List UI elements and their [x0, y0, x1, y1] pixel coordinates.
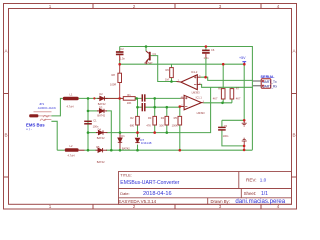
svg-text:EASYEDA V5.3.14: EASYEDA V5.3.14 [118, 199, 156, 204]
svg-text:B: B [292, 133, 295, 138]
svg-text:D1: D1 [121, 134, 125, 138]
svg-text:4,7uH: 4,7uH [67, 105, 74, 109]
svg-text:1: 1 [49, 4, 52, 9]
svg-text:IC1-2: IC1-2 [191, 70, 198, 74]
svg-text:100n: 100n [223, 134, 229, 138]
svg-text:47K: 47K [146, 124, 151, 128]
svg-text:10K: 10K [159, 124, 164, 128]
svg-text:BAT42: BAT42 [122, 147, 130, 151]
svg-text:D2: D2 [99, 92, 103, 96]
svg-text:UART_Rx: UART_Rx [262, 85, 277, 89]
svg-text:C1: C1 [93, 119, 97, 123]
svg-text:IC1.1: IC1.1 [196, 96, 203, 100]
svg-text:4K7: 4K7 [213, 96, 218, 100]
svg-text:BC547: BC547 [145, 61, 153, 65]
svg-text:Sheet:: Sheet: [244, 191, 257, 196]
svg-text:BAT42: BAT42 [97, 113, 105, 117]
svg-text:R5: R5 [174, 116, 178, 120]
svg-text:680: 680 [130, 124, 135, 128]
svg-text:1,5n: 1,5n [204, 56, 210, 60]
svg-text:R8: R8 [112, 73, 116, 77]
svg-text:C2: C2 [120, 47, 124, 51]
svg-text:+ / -: + / - [26, 127, 32, 131]
svg-text:100R: 100R [110, 83, 116, 87]
svg-text:C6: C6 [211, 48, 215, 52]
svg-text:R1: R1 [127, 93, 131, 97]
svg-text:Q1: Q1 [153, 52, 157, 56]
svg-text:BAT42: BAT42 [97, 136, 105, 140]
svg-text:R3: R3 [148, 116, 152, 120]
svg-text:R2: R2 [130, 116, 134, 120]
svg-text:SERIAL: SERIAL [261, 75, 276, 79]
svg-text:2: 2 [133, 4, 136, 9]
svg-text:+5V: +5V [239, 56, 246, 60]
svg-text:1N4148: 1N4148 [141, 141, 152, 145]
svg-text:Drawn By:: Drawn By: [211, 199, 230, 204]
svg-text:1,5n: 1,5n [120, 56, 126, 60]
svg-text:EMSBus-UART-Converter: EMSBus-UART-Converter [120, 180, 179, 186]
svg-text:10K: 10K [127, 101, 132, 105]
svg-text:R6: R6 [166, 68, 170, 72]
svg-text:100K: 100K [172, 124, 178, 128]
svg-text:LM393: LM393 [197, 111, 205, 115]
svg-text:Date:: Date: [120, 191, 129, 196]
svg-text:1/1: 1/1 [261, 191, 268, 197]
svg-text:dani.macias.perea: dani.macias.perea [235, 198, 285, 205]
svg-text:UART_Tx: UART_Tx [262, 80, 277, 84]
svg-text:2018-04-16: 2018-04-16 [143, 191, 172, 197]
svg-text:1M: 1M [165, 78, 169, 82]
svg-text:4: 4 [277, 4, 280, 9]
svg-text:D4: D4 [98, 127, 102, 131]
svg-text:1: 1 [49, 204, 52, 209]
svg-text:C5: C5 [224, 124, 228, 128]
svg-text:4,7uH: 4,7uH [68, 154, 75, 158]
svg-text:R9: R9 [218, 87, 222, 91]
svg-text:BAT42: BAT42 [98, 102, 106, 106]
svg-text:BAT42: BAT42 [97, 160, 105, 164]
svg-text:AUDIO-JACK: AUDIO-JACK [38, 106, 56, 110]
svg-text:4K7: 4K7 [236, 96, 241, 100]
svg-text:D3: D3 [99, 106, 103, 110]
svg-text:R4: R4 [161, 116, 165, 120]
svg-text:TITLE:: TITLE: [120, 173, 132, 178]
svg-text:3: 3 [219, 4, 222, 9]
svg-text:D5: D5 [96, 145, 100, 149]
svg-text:1.0: 1.0 [260, 177, 267, 182]
svg-text:B: B [4, 133, 7, 138]
svg-text:R7: R7 [236, 87, 240, 91]
svg-text:REV:: REV: [246, 177, 257, 182]
svg-text:LM393: LM393 [192, 91, 200, 95]
